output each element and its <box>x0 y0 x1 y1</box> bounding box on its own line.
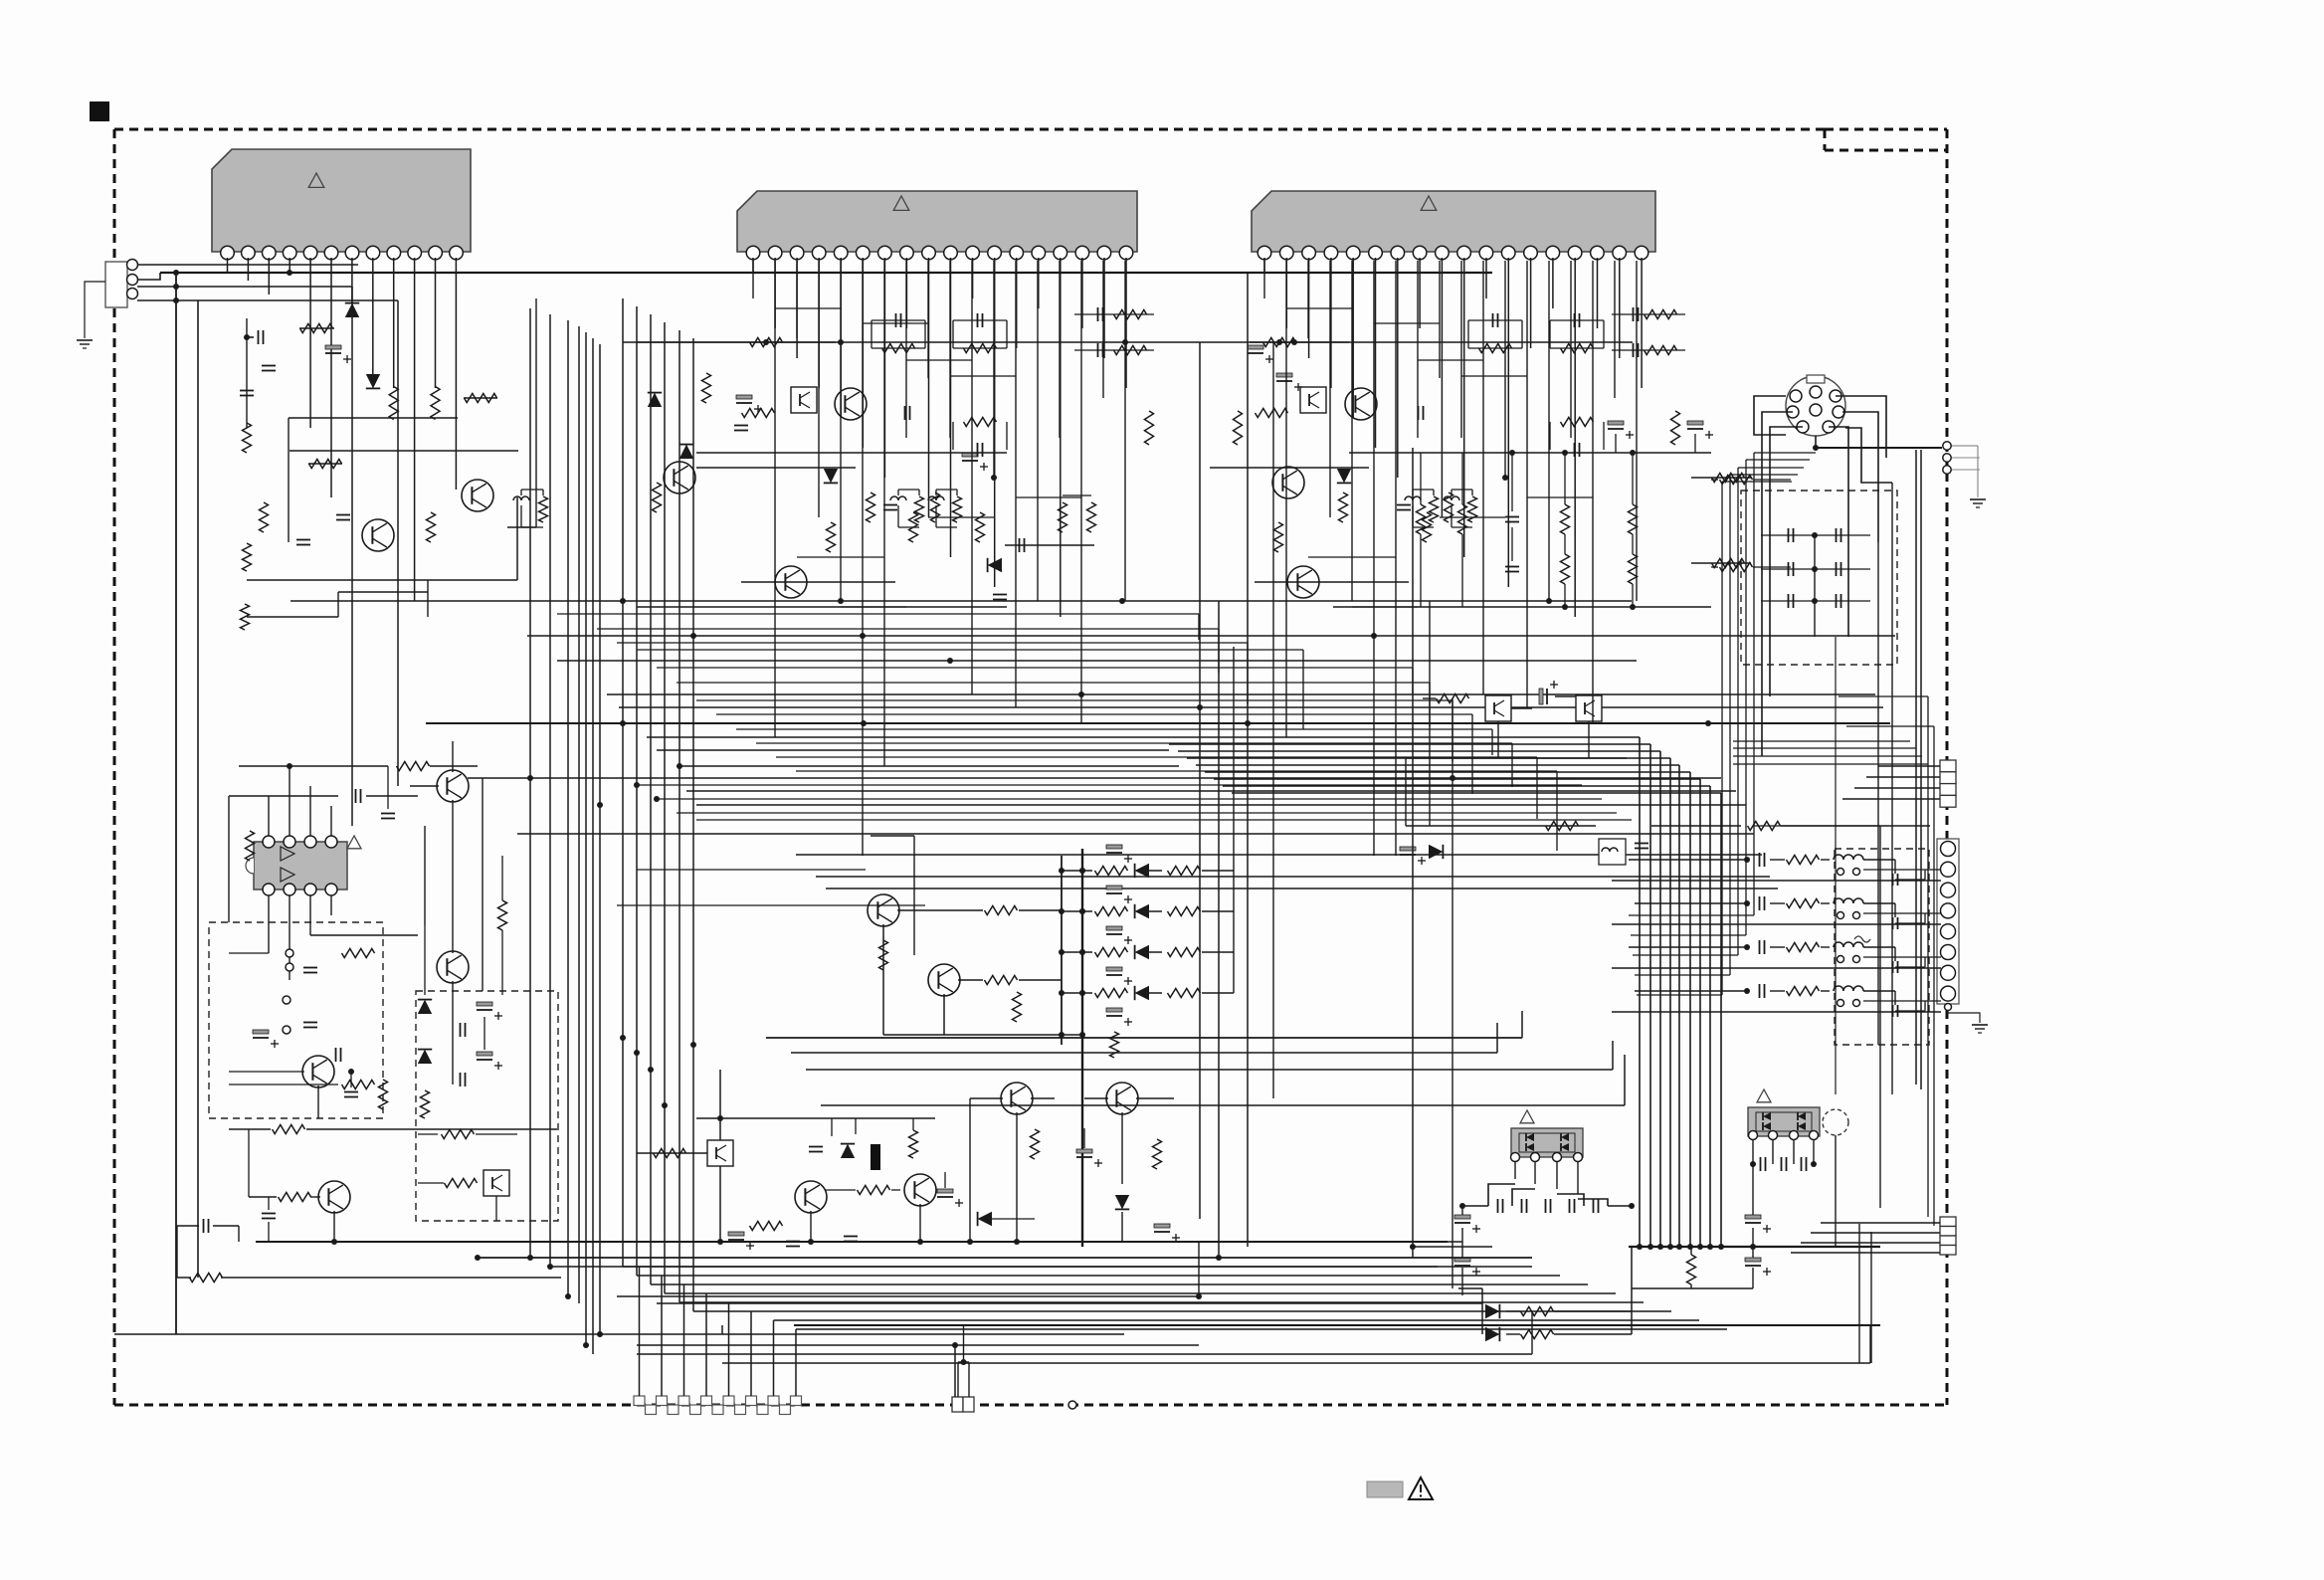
full width mid bus y344 <box>623 341 1633 343</box>
diode ladder center <box>1061 856 1063 1045</box>
mid-left risers <box>424 826 426 925</box>
IC3 power amp <box>1252 191 1655 252</box>
dashed sub-box D right filters <box>1835 849 1929 1045</box>
pair of transistors center <box>1001 1083 1033 1114</box>
zigzag resistor left of box B <box>498 900 507 930</box>
transistor Q1 left amp <box>362 519 394 551</box>
ladder driver transistors <box>868 894 899 926</box>
bottom connector row CN staggered <box>634 1396 645 1406</box>
extra stair band horizontals <box>557 613 1199 615</box>
cap-res feedback pairs IC2 <box>895 313 897 327</box>
right near-edge verticals <box>1927 696 1929 1217</box>
bridge right wiring <box>1752 1139 1754 1164</box>
inter-amp RC rows <box>1097 307 1099 321</box>
ground at left connector <box>85 282 105 338</box>
connector stack CN right upper <box>1940 760 1956 772</box>
transistor Q2 left amp <box>462 480 493 511</box>
IC2 power amp <box>737 191 1137 252</box>
left amp cluster components <box>258 330 260 344</box>
motor circle <box>1823 1109 1848 1135</box>
Q in dashed box A <box>302 1056 334 1087</box>
series cap + resistor bottom left <box>203 1219 205 1233</box>
caps row under bridge A <box>1497 1199 1499 1213</box>
connector stack CN right lower <box>1940 1217 1956 1227</box>
short ties under IC2 <box>775 307 841 309</box>
small circle on bottom border <box>1068 1401 1076 1409</box>
IC2 cluster rows <box>696 452 1007 454</box>
opto transformer mid center <box>1599 839 1626 865</box>
border tab notch <box>1825 128 1947 131</box>
wires into right upper stack <box>1878 765 1940 767</box>
trimmer caps in dashed box A <box>283 996 290 1004</box>
bus from input connector <box>137 264 358 266</box>
misc center horizontals to ladder drivers <box>637 869 866 871</box>
ground right of 8-pin connector <box>1948 1004 1980 1023</box>
right amp cluster components <box>1272 467 1304 498</box>
dashed box B contents <box>437 951 469 983</box>
driver Q lower left <box>318 1181 350 1213</box>
right edge long verticals <box>1915 450 1917 1085</box>
DIN connector socket top right <box>1786 376 1845 436</box>
feeds from center to right bundle <box>766 1037 1522 1039</box>
center right verticals bundle to bottom bus <box>1639 737 1641 1247</box>
wires into right lower stack <box>1821 1222 1940 1224</box>
bottom connector 2-pin <box>952 1397 963 1412</box>
stair bus band middle <box>290 600 1632 602</box>
dashed sub-box B lower mid-left <box>416 991 558 1221</box>
power bus horizontal <box>1629 1246 1880 1248</box>
junction dots on buses <box>620 598 626 604</box>
thin leads to external ground top right <box>1952 457 1980 459</box>
bottom extra buses <box>657 1302 1482 1304</box>
right stack horizontals <box>1733 740 1910 742</box>
bridge left wiring <box>1514 1161 1516 1179</box>
parallel L-R pairs IC3 <box>1412 490 1414 495</box>
parallel L-R pairs IC2 <box>897 490 899 495</box>
Q above IC4 <box>437 770 469 802</box>
left amp internal wires <box>247 579 517 581</box>
DIN connector nested wiring <box>1754 396 1786 435</box>
long center-bottom buses <box>478 1257 1532 1259</box>
index square marker <box>90 101 109 121</box>
parallel L-R pair IC1 <box>520 490 522 495</box>
main lower-left bus <box>256 1241 1448 1243</box>
mid amp cluster components <box>664 462 695 494</box>
dashed sub-box C top right near DIN <box>1741 491 1897 665</box>
tilde mark in filter box <box>1854 936 1870 942</box>
zener diodes bottom right <box>1485 1304 1499 1318</box>
center vertical bundle <box>529 308 531 1258</box>
dashed box C caps rows <box>1788 528 1790 542</box>
IC4 top pin wires <box>268 796 270 836</box>
stair ends joining bundle <box>1160 736 1640 738</box>
bottom-left long bus <box>114 1333 1124 1335</box>
mid fan verticals under IC2 <box>622 298 624 1267</box>
IC2 pin drop wires <box>752 258 754 273</box>
driver block center-bottom <box>707 1140 733 1166</box>
filter rows to 8-pin connector <box>1629 859 1747 861</box>
additional verticals under IC2 <box>752 261 754 298</box>
legend warning triangle <box>1409 1478 1433 1499</box>
dashed board outline <box>114 128 1825 131</box>
bridge rectifier D-block right <box>1748 1107 1820 1136</box>
IC4 dual op-amp <box>254 842 347 889</box>
bridge rectifier D-block left <box>1511 1128 1583 1157</box>
vertical res pair right of IC2 <box>1059 502 1067 532</box>
zener + cap cluster <box>841 1144 855 1158</box>
stair right descents <box>1198 614 1200 640</box>
DIN nested loop wiring <box>1753 453 1755 915</box>
left input connector J1 <box>105 262 127 307</box>
IC4 bottom pin wires <box>268 895 270 953</box>
opto coupler in box B <box>484 1170 509 1196</box>
short ties under IC3 <box>1286 307 1352 309</box>
extra left rails <box>351 287 353 826</box>
long left vertical rail <box>175 273 177 1334</box>
boxed driver pair mid right <box>1485 695 1511 721</box>
additional verticals under IC3 <box>1263 261 1265 298</box>
fuse black rect <box>871 1144 880 1170</box>
loops bottoms joining filters <box>1629 914 1754 916</box>
double vertical right <box>1858 1224 1860 1363</box>
IC1 power amp <box>212 149 471 252</box>
fan verticals to bottom connector <box>639 1267 641 1396</box>
dashed sub-box A lower left <box>209 922 383 1118</box>
IC3 pin drop wires <box>1263 258 1265 273</box>
center tall verticals <box>1199 342 1201 1219</box>
IC1 pin drop wires <box>227 258 229 273</box>
2-pin connector riser <box>957 1362 959 1397</box>
8-pin connector column right <box>1937 839 1959 1004</box>
output filter grid right of IC3 <box>1349 452 1711 454</box>
right border pins to ext ground <box>1943 442 1951 450</box>
legend gray swatch <box>1367 1481 1403 1497</box>
